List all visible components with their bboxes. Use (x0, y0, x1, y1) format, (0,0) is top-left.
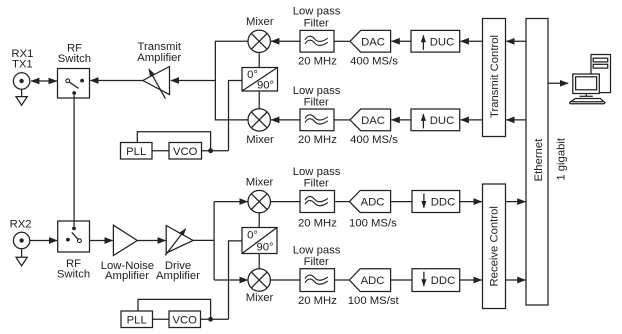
wire A3 to splitter (193, 239, 214, 241)
wire VCO2 junction to PS2 (229, 241, 243, 319)
wire PLL1 feedback (137, 132, 210, 151)
wire transmit control to DUC2 (461, 119, 483, 121)
amplifier A2 low-noise amp triangle (113, 225, 137, 255)
svg-text:400 MS/s: 400 MS/s (350, 56, 398, 68)
DAC U3 (350, 109, 391, 131)
svg-text:Amplifier: Amplifier (105, 270, 149, 282)
filter FL4 label (293, 245, 341, 269)
amplifier A1 transmit amp triangle (143, 67, 170, 95)
svg-text:Transmit Control: Transmit Control (489, 35, 501, 118)
svg-text:Low pass: Low pass (293, 85, 341, 97)
filter FL3 lowpass (300, 191, 335, 213)
mixer M3 label (246, 177, 274, 189)
svg-text:400 MS/s: 400 MS/s (350, 134, 398, 146)
wire splitter vertical (213, 202, 215, 280)
wire amplifier A1 to S1 (90, 80, 143, 82)
wire VCO1 junction to PS1 (229, 81, 243, 151)
mixer M4 label (246, 292, 274, 304)
wire DUC2 to DAC2 (391, 119, 411, 121)
switch S1 lever (69, 82, 78, 88)
svg-text:Low pass: Low pass (293, 6, 341, 18)
wire ADC2 to DDC2 (391, 279, 412, 281)
value label FL4 20 MHz (298, 295, 337, 307)
svg-text:Low pass: Low pass (293, 245, 341, 257)
switch S1 throw contact (80, 79, 84, 83)
filter FL1 label (293, 6, 341, 30)
wire transmit control to DUC1 (461, 40, 483, 42)
svg-text:DAC: DAC (361, 36, 385, 48)
value label U5 100 MS/s (349, 218, 397, 230)
svg-text:Mixer: Mixer (246, 177, 274, 189)
svg-text:100 MS/st: 100 MS/st (348, 295, 400, 307)
connector J2 RX2 coax (13, 232, 29, 248)
wire receive control to ethernet row4 (506, 279, 526, 281)
wire PS2 to M4 (258, 254, 260, 270)
node RX1/TX1 label (11, 48, 33, 71)
switch S2 top contact (72, 227, 76, 231)
svg-text:90°: 90° (257, 80, 274, 92)
antenna stub J2 (16, 248, 27, 265)
wire LNA to drive amp (137, 240, 165, 242)
svg-text:Switch: Switch (58, 53, 91, 65)
svg-text:Amplifier: Amplifier (137, 52, 181, 64)
amplifier A1 label (137, 41, 182, 64)
wire M3 to PS2 (258, 212, 260, 227)
switch S1 box (58, 69, 90, 99)
svg-text:Ethernet: Ethernet (533, 138, 545, 182)
wire FL3 to ADC1 (335, 201, 351, 203)
value label 1 gigabit (555, 137, 567, 181)
junction VCO1 output (208, 148, 213, 153)
switch S2 pole (78, 239, 82, 243)
DUC U4 (411, 109, 460, 131)
value label U1 400 MS/s (350, 56, 398, 68)
amplifier A3 gain arrow (165, 229, 186, 256)
amplifier A3 drive amp triangle (166, 226, 193, 254)
wire M3 to FL3 (270, 201, 300, 203)
wire PLL2 feedback (138, 299, 211, 319)
filter FL2 label (293, 85, 341, 109)
wire PLL1 to VCO1 (152, 150, 169, 152)
DAC U1 (350, 30, 391, 52)
wire DAC2 to FL2 (334, 119, 350, 121)
svg-text:VCO: VCO (173, 146, 198, 158)
svg-text:Filter: Filter (304, 178, 329, 190)
svg-text:DDC: DDC (431, 275, 455, 287)
computer PC monitor (573, 74, 600, 94)
svg-text:Mixer: Mixer (246, 292, 274, 304)
svg-text:1 gigabit: 1 gigabit (555, 137, 567, 181)
wire PS1 to M2 (258, 91, 260, 109)
VCO2 (169, 311, 201, 328)
wire ethernet to transmit control row2 (506, 119, 526, 121)
computer PC tower (591, 55, 611, 93)
svg-text:20 MHz: 20 MHz (298, 56, 337, 68)
switch S1 pole (66, 79, 70, 83)
phase splitter PS2 0/90 (242, 228, 277, 254)
transmit control U9 (483, 19, 506, 137)
ethernet U11 (526, 19, 548, 306)
value label U7 100 MS/st (348, 295, 400, 307)
wire filter FL1 to mixer M1 (271, 40, 300, 42)
svg-text:ADC: ADC (361, 275, 385, 287)
antenna stub J1 (16, 89, 27, 105)
wire M4 to FL4 (270, 279, 300, 281)
switch S1 label (58, 43, 91, 65)
filter FL3 label (293, 166, 341, 190)
svg-text:Low pass: Low pass (293, 166, 341, 178)
svg-text:Amplifier: Amplifier (156, 270, 200, 282)
switch S2 label (57, 258, 90, 280)
filter FL4 lowpass (300, 269, 335, 292)
svg-text:PLL: PLL (127, 314, 147, 326)
connector J1 RX1/TX1 coax (13, 73, 29, 89)
switch S2 box (58, 221, 90, 252)
svg-text:100 MS/s: 100 MS/s (349, 218, 397, 230)
wire DUC1 to DAC1 (391, 40, 411, 42)
mixer M3 (248, 190, 270, 212)
amplifier A1 gain arrow (149, 69, 166, 99)
svg-text:ADC: ADC (361, 197, 385, 209)
computer PC keyboard (570, 99, 605, 104)
receive control U10 (483, 184, 506, 309)
svg-text:Mixer: Mixer (246, 134, 274, 146)
svg-text:DDC: DDC (431, 197, 455, 209)
wire mixer M1 to combiner (215, 41, 248, 120)
node RX2 label (10, 219, 32, 231)
svg-text:DAC: DAC (361, 115, 385, 127)
junction VCO2 output (208, 317, 213, 322)
mixer M2 label (246, 134, 274, 146)
switch S1 bottom contact (72, 91, 76, 95)
svg-text:20 MHz: 20 MHz (298, 295, 337, 307)
svg-text:Filter: Filter (304, 256, 329, 268)
svg-text:Receive Control: Receive Control (488, 206, 500, 286)
mixer M4 (248, 269, 270, 291)
phase splitter PS1 0/90 (242, 68, 278, 92)
svg-text:Mixer: Mixer (246, 16, 274, 28)
switch S2 left contact (66, 238, 70, 242)
svg-text:RX2: RX2 (10, 219, 32, 231)
wire FL4 to ADC2 (335, 279, 351, 281)
wire DAC1 to FL1 (334, 40, 350, 42)
amplifier A3 drive amp label (156, 260, 200, 282)
svg-text:VCO: VCO (172, 314, 197, 326)
ADC U7 (349, 269, 390, 292)
value label FL2 20 MHz (298, 134, 337, 146)
wire splitter to mixer M4 (214, 279, 248, 281)
PLL2 (121, 311, 153, 328)
VCO1 (169, 143, 202, 160)
wire ethernet to transmit control row1 (506, 40, 526, 42)
mixer M2 (248, 109, 270, 131)
mixer M1 (248, 30, 270, 52)
DDC U6 (412, 191, 460, 213)
wire VCO1 output (202, 150, 229, 152)
wire PLL2 to VCO2 (153, 318, 170, 320)
wire splitter to mixer M3 (214, 201, 248, 203)
wire combiner to A1 (171, 80, 216, 82)
ADC U5 (349, 191, 390, 213)
svg-text:Filter: Filter (304, 17, 329, 29)
DUC U2 (411, 30, 460, 52)
svg-text:Switch: Switch (57, 269, 90, 281)
svg-text:DUC: DUC (430, 36, 454, 48)
value label U3 400 MS/s (350, 134, 398, 146)
switch S2 lever (72, 232, 78, 239)
wire ADC1 to DDC1 (391, 201, 412, 203)
svg-text:TX1: TX1 (12, 58, 33, 70)
wire ethernet to PC (548, 82, 568, 84)
wire VCO2 output (201, 318, 229, 320)
wire S1 to S2 (73, 95, 75, 226)
wire S2 to LNA (90, 240, 113, 242)
wire filter FL2 to mixer M2 (271, 119, 300, 121)
PLL1 (121, 143, 153, 160)
wire DDC1 to receive control (460, 201, 482, 203)
svg-text:PLL: PLL (126, 146, 146, 158)
wire receive control to ethernet row3 (506, 201, 526, 203)
amplifier A2 LNA label (101, 260, 154, 282)
mixer M1 label (246, 16, 274, 28)
value label FL3 20 MHz (298, 218, 337, 230)
filter FL2 lowpass (300, 109, 334, 131)
wire DDC2 to receive control (460, 279, 482, 281)
svg-text:Filter: Filter (304, 97, 329, 109)
svg-text:20 MHz: 20 MHz (298, 218, 337, 230)
filter FL1 lowpass (300, 30, 334, 52)
svg-text:90°: 90° (256, 241, 273, 253)
svg-text:DUC: DUC (430, 115, 454, 127)
computer PC stand (580, 94, 593, 97)
svg-text:0°: 0° (247, 230, 258, 242)
wire M1 to PS1 (258, 52, 260, 67)
DDC U8 (412, 269, 460, 292)
svg-text:20 MHz: 20 MHz (298, 134, 337, 146)
value label FL1 20 MHz (298, 56, 337, 68)
wire J1 to S1 bidirectional (31, 80, 57, 82)
wire J2 to S2 (30, 240, 57, 242)
